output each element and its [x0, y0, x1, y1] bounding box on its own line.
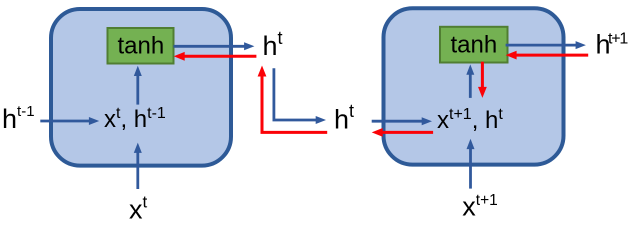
- tanh box U1: [108, 28, 174, 64]
- svg-text:xt+1: xt+1: [462, 192, 497, 222]
- wire input h t-1: [40, 117, 99, 125]
- wire x t up into cell: [134, 143, 142, 189]
- rnn cell box t: [51, 9, 231, 166]
- svg-text:ht: ht: [334, 101, 354, 135]
- wire gradient tanh down: [478, 62, 487, 98]
- wire concat to tanh: [134, 66, 142, 105]
- svg-text:tanh: tanh: [451, 31, 498, 58]
- svg-text:ht: ht: [263, 28, 283, 61]
- wire gradient elbow back: [258, 66, 328, 133]
- wire h t into cell t+1: [372, 117, 432, 125]
- wire gradient into tanh t+1: [506, 51, 589, 60]
- wire h t forward elbow: [274, 68, 326, 124]
- svg-text:ht+1: ht+1: [596, 29, 629, 59]
- tanh box U2: [440, 27, 508, 63]
- wire gradient into tanh t: [174, 52, 257, 61]
- wire concat to tanh t+1: [466, 64, 474, 98]
- wire tanh to h t output: [174, 42, 255, 50]
- svg-text:tanh: tanh: [118, 32, 165, 59]
- wire tanh to h t+1 output: [506, 41, 586, 49]
- wire x t+1 up into cell: [467, 139, 475, 189]
- wire gradient out of cell t+1: [372, 128, 433, 137]
- rnn cell box t+1: [384, 8, 564, 164]
- svg-text:xt: xt: [129, 192, 148, 224]
- svg-text:ht-1: ht-1: [2, 103, 35, 134]
